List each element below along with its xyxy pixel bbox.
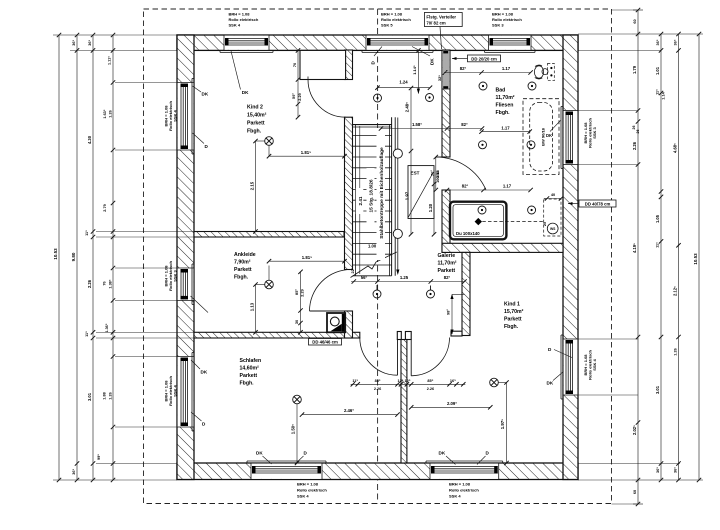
svg-text:76: 76 [102, 281, 106, 285]
svg-text:1.17: 1.17 [503, 184, 512, 189]
spot lights Galerie [373, 285, 381, 298]
dim Ankleide 1.13 vertical [249, 282, 264, 334]
left dim line 4 windows [102, 33, 115, 482]
dim Bad mid 1.17 [479, 125, 532, 134]
svg-text:Stahlbetontreppe mit Eichenhol: Stahlbetontreppe mit Eichenholzauflage [379, 147, 385, 239]
window left wall Ankleide [177, 264, 194, 304]
svg-text:Galerie: Galerie [438, 253, 456, 259]
svg-text:Fbgh.: Fbgh. [504, 324, 519, 330]
svg-text:1.00: 1.00 [368, 244, 377, 249]
svg-text:26: 26 [632, 126, 636, 130]
dim Bad top 82/1.17 [443, 66, 533, 75]
svg-text:1.24: 1.24 [399, 79, 408, 84]
left extension lines [70, 35, 194, 480]
BRH label top window 3 [492, 12, 522, 28]
stair open side [391, 117, 393, 276]
door Kind 2 (at stair landing) [308, 79, 346, 81]
room label Kind 2 [247, 105, 267, 135]
svg-text:2.09°: 2.09° [447, 401, 457, 406]
window W2 top (hall) [362, 35, 433, 52]
outer wall right [563, 35, 578, 480]
svg-text:Kind 1: Kind 1 [504, 302, 520, 308]
svg-text:2.12⁵: 2.12⁵ [673, 286, 678, 296]
svg-text:DD 40/78 cm: DD 40/78 cm [585, 201, 611, 206]
stair label 15 Stg [367, 168, 375, 224]
window bottom Schlafen [247, 461, 326, 480]
svg-text:1.17: 1.17 [501, 125, 510, 130]
svg-text:DK: DK [202, 92, 209, 97]
svg-text:22⁵: 22⁵ [351, 267, 355, 273]
svg-text:1.20: 1.20 [428, 203, 433, 212]
svg-text:DK: DK [201, 370, 208, 375]
svg-text:2.29: 2.29 [297, 92, 302, 100]
door Ankleide [310, 310, 352, 312]
svg-text:SSK 4: SSK 4 [297, 494, 309, 499]
svg-text:Rollo elektrisch: Rollo elektrisch [381, 17, 411, 22]
svg-text:11⁵: 11⁵ [85, 331, 89, 337]
dim Galerie 56/1.25/82 [351, 275, 467, 283]
svg-text:36⁵: 36⁵ [72, 39, 76, 45]
svg-text:85°: 85° [294, 289, 299, 295]
svg-text:1.11⁵: 1.11⁵ [108, 56, 112, 65]
dim hall vertical 2.48/1.97 [405, 86, 414, 237]
EST electric box [408, 166, 440, 219]
svg-text:2.26: 2.26 [87, 279, 92, 288]
svg-text:Schlafen: Schlafen [240, 358, 262, 364]
svg-text:36⁵: 36⁵ [656, 467, 660, 473]
stairwell west wall upper stub [345, 50, 353, 80]
svg-text:DK: DK [546, 133, 552, 138]
svg-text:4.19⁵: 4.19⁵ [632, 243, 637, 253]
svg-text:Fbgh.: Fbgh. [234, 275, 249, 281]
BRH label left Schlafen window [163, 376, 177, 406]
svg-text:DD 46/46 cm: DD 46/46 cm [312, 340, 338, 345]
svg-text:60: 60 [633, 19, 637, 23]
outer wall bottom [177, 463, 578, 480]
svg-text:2.48⁵: 2.48⁵ [405, 102, 410, 112]
svg-text:1.88: 1.88 [102, 392, 106, 399]
stair stringers [355, 125, 357, 276]
window W1 top (Kind 2) [220, 35, 273, 52]
room label Ankleide [234, 252, 256, 281]
dim Bad lower 82/1.17 [445, 184, 533, 193]
svg-text:1.38⁵: 1.38⁵ [109, 279, 113, 288]
svg-text:11⁵: 11⁵ [85, 230, 89, 236]
right dim line A fine [632, 8, 640, 506]
room label Kind 1 [504, 302, 524, 331]
svg-text:Parkett: Parkett [438, 268, 456, 274]
svg-text:70/ 82 cm: 70/ 82 cm [426, 20, 446, 25]
svg-text:3.01: 3.01 [655, 385, 660, 394]
svg-text:99⁵: 99⁵ [97, 454, 101, 460]
svg-text:1.14⁵: 1.14⁵ [412, 65, 417, 75]
svg-text:4.30: 4.30 [87, 135, 92, 144]
right dim line B [655, 32, 665, 482]
door Bad [436, 157, 486, 190]
svg-text:1.17: 1.17 [502, 66, 511, 71]
svg-text:DK: DK [256, 451, 263, 456]
svg-text:70: 70 [292, 63, 297, 67]
svg-text:DK: DK [547, 381, 554, 386]
room label Bad [496, 88, 515, 117]
svg-text:15,40m²: 15,40m² [247, 113, 267, 119]
outer wall left [177, 35, 194, 480]
svg-text:82°: 82° [460, 66, 467, 71]
window left wall Kind 2 [177, 79, 194, 155]
svg-text:1.36⁵: 1.36⁵ [105, 323, 109, 332]
spot lights Bad [479, 82, 487, 90]
svg-text:Rollo elektrisch: Rollo elektrisch [297, 488, 327, 493]
BRH label top window 1 [229, 12, 259, 28]
dim WS 40/25 [542, 192, 563, 226]
BRH label bottom Kind 1 [449, 482, 479, 499]
central wall Schlafen/Kind1 [401, 340, 407, 464]
central wall jamb right [405, 332, 411, 340]
svg-text:1.05: 1.05 [655, 214, 660, 223]
wardrobe niche Kind 2 [300, 50, 346, 79]
svg-text:11⁵: 11⁵ [352, 379, 358, 383]
left chain connectors [53, 34, 118, 36]
svg-text:82°: 82° [462, 184, 469, 189]
svg-text:Flstg. Verteiler: Flstg. Verteiler [426, 14, 456, 19]
ceiling light Ankleide [265, 280, 274, 289]
svg-text:1.97: 1.97 [405, 191, 410, 200]
svg-text:BRH = 1.08: BRH = 1.08 [229, 12, 251, 17]
svg-text:85⁵: 85⁵ [375, 379, 381, 383]
svg-text:12⁵ 12⁵: 12⁵ 12⁵ [397, 379, 410, 383]
window right wall Bad [561, 107, 578, 169]
svg-text:Bad: Bad [496, 88, 506, 94]
svg-text:1.81⁵: 1.81⁵ [302, 255, 312, 260]
ceiling light Kind 1 [490, 378, 499, 387]
svg-text:10.53: 10.53 [693, 253, 698, 265]
section line [377, 9, 379, 504]
shower drain diamond [475, 218, 482, 225]
dim central doors row [351, 379, 466, 391]
svg-text:60: 60 [633, 490, 637, 494]
walking line [397, 118, 399, 271]
svg-text:3.01: 3.01 [87, 392, 92, 401]
svg-text:2.15: 2.15 [249, 181, 254, 190]
window bottom Kind 1 [426, 461, 503, 480]
bathtub BW [523, 99, 559, 175]
svg-text:26: 26 [636, 130, 640, 134]
svg-text:11⁵: 11⁵ [656, 242, 660, 248]
BRH label top window 2 [381, 12, 411, 28]
svg-text:BRH = 1.08: BRH = 1.08 [297, 482, 319, 487]
svg-text:98°: 98° [446, 309, 451, 315]
stair label Stahlbetontreppe [377, 128, 386, 260]
left dim line 3 rooms [85, 33, 101, 482]
label box DD 40/78 cm [568, 203, 579, 205]
stair treads [353, 125, 392, 276]
svg-text:2.46°: 2.46° [344, 408, 354, 413]
svg-text:1.01: 1.01 [655, 66, 660, 75]
svg-text:76°: 76° [429, 170, 434, 176]
dim hall vertical 1.20 [428, 170, 436, 237]
window right wall Kind 1 [561, 335, 578, 399]
svg-text:11⁵: 11⁵ [656, 89, 660, 95]
svg-text:2.26: 2.26 [427, 387, 434, 391]
svg-text:2.41: 2.41 [358, 196, 363, 205]
dim Ankleide 85/2.29/30 vertical [294, 270, 305, 335]
BRH label left Ankleide window [163, 261, 177, 291]
svg-text:2.29: 2.29 [299, 288, 304, 296]
svg-text:10.53: 10.53 [53, 248, 58, 260]
svg-text:2.02⁵: 2.02⁵ [632, 425, 637, 435]
BRH label right Bad window [583, 118, 597, 148]
BRH label right Kind1 window [583, 350, 597, 380]
left dim line 2 9.80 [71, 33, 79, 482]
svg-text:BRH = 1.08: BRH = 1.08 [492, 12, 514, 17]
svg-text:56°: 56° [361, 275, 368, 280]
dim Kind1 2.09 [409, 401, 492, 410]
svg-text:16⁵: 16⁵ [450, 379, 456, 383]
dim Kind2 horizontal 1.81 [267, 145, 347, 158]
ceiling light Kind 2 [265, 137, 274, 146]
right dim line C [673, 32, 681, 482]
svg-text:59°: 59° [291, 93, 296, 99]
stair dim 2.41 [359, 126, 361, 274]
Galerie/Kind1 wall stub [451, 331, 462, 336]
WC [534, 64, 554, 81]
svg-text:Kind 2: Kind 2 [247, 105, 263, 111]
svg-text:BRH = 1.08: BRH = 1.08 [449, 482, 471, 487]
svg-text:1.26: 1.26 [109, 392, 113, 399]
svg-text:Ankleide: Ankleide [234, 252, 256, 258]
room label Galerie [438, 253, 457, 274]
svg-text:1.81⁵: 1.81⁵ [301, 150, 311, 155]
svg-text:30: 30 [294, 320, 299, 324]
roof outline dashed border [144, 9, 612, 504]
svg-text:1.63⁵: 1.63⁵ [103, 109, 107, 118]
left wall Ankleide window leader [191, 296, 209, 313]
svg-text:BRH = 1.08: BRH = 1.08 [381, 12, 403, 17]
partition Ankleide/Schlafen [194, 332, 360, 338]
dim Bad door 76 [429, 155, 439, 192]
svg-text:SSK 4: SSK 4 [449, 494, 461, 499]
door Kind 1 [410, 339, 412, 375]
dim hall 1.14 vertical [412, 48, 442, 94]
svg-text:32⁵: 32⁵ [437, 75, 442, 81]
svg-text:Fbgh.: Fbgh. [240, 381, 255, 387]
partition Kind2/Ankleide [194, 232, 344, 238]
stairwell west wall middle [345, 117, 353, 269]
BRH label bottom Schlafen [297, 482, 327, 499]
svg-text:36⁵: 36⁵ [674, 467, 678, 473]
svg-text:40: 40 [551, 192, 555, 197]
svg-text:SSK 4: SSK 4 [172, 384, 177, 396]
dim Schlafen 1.50 vertical [291, 404, 300, 465]
label box DD 20/20 cm [452, 58, 468, 60]
svg-text:WS: WS [550, 227, 556, 231]
svg-text:2.13: 2.13 [435, 169, 440, 177]
room label Schlafen [240, 358, 262, 387]
Bad south wall [442, 243, 563, 252]
outer wall top [177, 35, 578, 50]
ceiling light Schlafen [293, 395, 302, 404]
dim Galerie 98 vertical [446, 294, 465, 335]
svg-text:11,70m²: 11,70m² [496, 95, 515, 101]
WS laundry chute [544, 199, 561, 236]
BRH label left Kind2 window [163, 101, 177, 131]
svg-text:14,60m²: 14,60m² [240, 366, 260, 372]
svg-text:Rollo elektrisch: Rollo elektrisch [449, 488, 479, 493]
svg-text:DK: DK [439, 451, 446, 456]
svg-text:SSK 3: SSK 3 [172, 269, 177, 281]
svg-text:1.13: 1.13 [249, 302, 254, 311]
Bad west wall upper [442, 50, 450, 157]
svg-text:1.50⁵: 1.50⁵ [291, 424, 296, 434]
svg-text:2.79: 2.79 [103, 204, 107, 211]
svg-text:SSK 3: SSK 3 [492, 23, 504, 28]
svg-text:15,70m²: 15,70m² [504, 309, 524, 315]
svg-text:4.68⁵: 4.68⁵ [673, 143, 678, 153]
label box Flstg Verteiler [440, 27, 442, 50]
svg-text:Fliesen: Fliesen [496, 103, 514, 109]
svg-text:36⁵: 36⁵ [656, 39, 660, 45]
DK/D labels with leaders [191, 47, 573, 465]
svg-text:1.25: 1.25 [400, 275, 409, 280]
svg-text:BW 90/18: BW 90/18 [541, 127, 546, 146]
svg-text:7,90m²: 7,90m² [234, 260, 251, 266]
right dim line D total 10.53 [693, 32, 701, 482]
svg-text:1.14: 1.14 [661, 91, 665, 99]
chimney DD 46/46 [327, 313, 345, 332]
svg-text:1.58°: 1.58° [412, 122, 422, 127]
dim hall horizontal 1.58/82 [379, 122, 484, 131]
left dim line 1 total 10.53 [53, 33, 61, 482]
svg-text:36⁵: 36⁵ [674, 39, 678, 45]
svg-text:DD 20/20 cm: DD 20/20 cm [471, 56, 497, 61]
dim hall 1.24 [375, 79, 432, 90]
svg-text:Parkett: Parkett [504, 317, 522, 323]
svg-text:85⁵: 85⁵ [427, 379, 433, 383]
svg-text:Rollo elektrisch: Rollo elektrisch [229, 17, 259, 22]
svg-text:36⁵: 36⁵ [88, 39, 92, 45]
dim Ankleide 1.81 [267, 255, 347, 280]
svg-text:1.26: 1.26 [109, 110, 113, 117]
dim Kind1 1.97 vertical [498, 380, 508, 465]
right extension lines [578, 10, 680, 504]
right chain connectors [632, 33, 703, 35]
svg-text:1.97⁵: 1.97⁵ [500, 419, 505, 429]
window W3 top (Bad) [485, 35, 536, 52]
dim Kind2 vertical 2.15 [249, 139, 264, 234]
spot lights hall top [374, 94, 382, 102]
dim Schlafen 2.46 [300, 408, 400, 417]
svg-text:SSK 4: SSK 4 [229, 23, 241, 28]
svg-text:1.26: 1.26 [674, 348, 678, 355]
window left wall Schlafen [177, 353, 194, 432]
stair break line [351, 252, 397, 278]
stairwell west wall lower [345, 311, 353, 338]
svg-text:DK: DK [429, 58, 434, 65]
Galerie/Kind1 wall [462, 252, 470, 335]
svg-text:Fbgh.: Fbgh. [496, 110, 511, 116]
Bad west wall lower [442, 190, 450, 252]
svg-text:15 Stg. 18.8/26: 15 Stg. 18.8/26 [369, 179, 375, 212]
svg-text:82°: 82° [444, 275, 451, 280]
svg-text:SSK 3: SSK 3 [592, 126, 597, 138]
svg-text:SSK 4: SSK 4 [172, 109, 177, 121]
svg-text:2.26: 2.26 [632, 141, 637, 150]
svg-text:82°: 82° [461, 122, 468, 127]
svg-text:2.26: 2.26 [374, 387, 381, 391]
svg-text:Parkett: Parkett [240, 373, 258, 379]
svg-text:Fbgh.: Fbgh. [247, 129, 262, 135]
interior window in Bad west wall [442, 50, 450, 89]
door Schlafen [397, 339, 399, 375]
svg-text:9.80: 9.80 [71, 252, 76, 261]
svg-text:Parkett: Parkett [247, 121, 265, 127]
svg-text:EST: EST [411, 171, 420, 176]
svg-text:11,70m²: 11,70m² [438, 261, 457, 267]
shower Du 100x140 [450, 202, 506, 240]
svg-text:Parkett: Parkett [234, 267, 252, 273]
svg-text:SSK 5: SSK 5 [381, 23, 393, 28]
svg-text:36⁵: 36⁵ [72, 468, 76, 474]
dim Kind2 door vertical 70/59/2.29 [291, 48, 302, 119]
svg-text:Du 100x140: Du 100x140 [456, 231, 480, 236]
central wall jamb left [397, 332, 401, 340]
svg-text:DK: DK [242, 90, 249, 95]
svg-text:Rollo elektrisch: Rollo elektrisch [492, 17, 522, 22]
label box DD 46/46 cm [309, 339, 342, 346]
svg-text:SSK 4: SSK 4 [592, 358, 597, 370]
svg-text:1.79: 1.79 [632, 65, 637, 74]
